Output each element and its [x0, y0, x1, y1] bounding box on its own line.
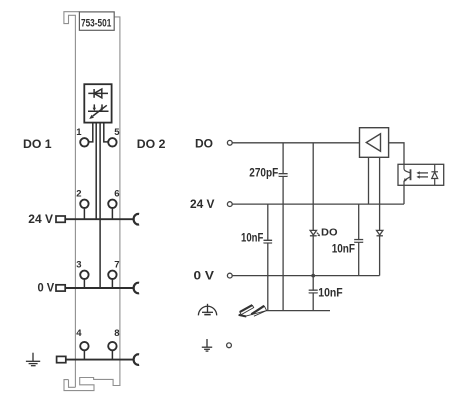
amplifier U2 [360, 128, 389, 158]
svg-text:0 V: 0 V [194, 271, 215, 283]
svg-text:10nF: 10nF [318, 287, 342, 299]
amp output wire to 0V via D2 [379, 157, 381, 275]
0V terminal connector [56, 285, 65, 291]
24V jumper contact arc [134, 214, 139, 225]
0V net wire [232, 275, 379, 277]
svg-text:DO 1: DO 1 [23, 139, 52, 151]
stub contact 6 [111, 208, 113, 219]
svg-text:7: 7 [114, 260, 119, 271]
svg-text:10nF: 10nF [332, 243, 355, 255]
wire optocoupler emitter to 24V [403, 185, 405, 204]
wire 24V to 0V via C3 [358, 204, 360, 276]
label box 753-501 [79, 12, 114, 30]
svg-text:0 V: 0 V [38, 283, 55, 295]
stub contact 2 [83, 208, 85, 219]
earth terminal connector [57, 356, 66, 362]
amp supply wire [368, 157, 370, 204]
svg-text:5: 5 [114, 127, 120, 138]
LED arrows symbol in icon box [88, 104, 109, 119]
junction node 0V/C4 [311, 274, 315, 278]
svg-text:24 V: 24 V [190, 199, 215, 211]
earth jumper contact arc [134, 354, 139, 365]
24V terminal [227, 202, 232, 207]
wire DO to chassis via LED and C4 [312, 143, 314, 311]
DO terminal [227, 140, 232, 145]
pin 5 wire from icon box to contact 5 [104, 123, 109, 142]
DO net wire [232, 142, 359, 144]
earth rail wire [66, 359, 133, 361]
contact 3 [80, 271, 88, 279]
optocoupler U3 [398, 164, 444, 185]
contact 5 [108, 138, 116, 146]
svg-text:753-501: 753-501 [81, 18, 111, 30]
svg-text:DO: DO [195, 139, 213, 151]
contact 7 [108, 271, 116, 279]
svg-text:1: 1 [76, 127, 82, 138]
24V net wire [232, 203, 404, 205]
capacitor C2 270pF [279, 174, 288, 177]
bus wire right [99, 123, 101, 288]
contact 4 [80, 342, 88, 350]
svg-text:DO 2: DO 2 [137, 139, 166, 151]
contact 8 [108, 342, 116, 350]
stub contact 4 [83, 350, 85, 359]
0V jumper contact arc [134, 283, 139, 294]
amp triangle [366, 134, 380, 151]
svg-text:270pF: 270pF [249, 168, 278, 180]
stub contact 3 [83, 279, 85, 288]
0V power rail wire [65, 287, 133, 289]
contact 2 [80, 200, 88, 208]
capacitor C4 10nF [309, 290, 318, 293]
earth terminal [227, 343, 232, 348]
24V terminal connector [56, 216, 65, 222]
svg-text:10nF: 10nF [241, 233, 263, 245]
optocoupler LED [431, 164, 438, 185]
svg-text:DO: DO [321, 227, 338, 239]
chassis net wire bottom [267, 310, 331, 312]
svg-text:3: 3 [76, 260, 81, 271]
module foot outline [64, 378, 121, 391]
optocoupler light arrows [416, 171, 428, 178]
icon box U1 [84, 84, 111, 122]
bus wire left [95, 123, 97, 220]
diode D1 in icon box [88, 89, 108, 98]
capacitor C3 10nF [354, 240, 363, 243]
contact 1 [80, 138, 88, 146]
LED DO status [310, 230, 320, 236]
DIN rail clamp icon [239, 305, 267, 317]
diode D2 [377, 230, 383, 235]
pin 1 wire from icon box to contact 1 [88, 123, 92, 142]
stub contact 8 [111, 350, 113, 359]
contact 6 [108, 200, 116, 208]
0V terminal [227, 273, 232, 278]
stub contact 7 [111, 279, 113, 288]
svg-text:4: 4 [76, 328, 82, 339]
svg-text:6: 6 [114, 189, 119, 200]
svg-text:2: 2 [76, 189, 81, 200]
wire amp output to optocoupler [389, 143, 404, 165]
module body outline [64, 12, 120, 388]
chassis earth circle symbol [198, 304, 216, 316]
phototransistor [404, 164, 411, 185]
wire 24V to chassis via C1 [267, 204, 269, 311]
functional earth symbol schematic [202, 339, 212, 351]
capacitor C1 10nF [264, 240, 273, 243]
wire DO to chassis via C2 [282, 143, 284, 311]
ground symbol left [26, 353, 40, 366]
24V power rail wire [65, 218, 133, 220]
svg-text:24 V: 24 V [28, 214, 53, 226]
svg-text:8: 8 [114, 328, 119, 339]
